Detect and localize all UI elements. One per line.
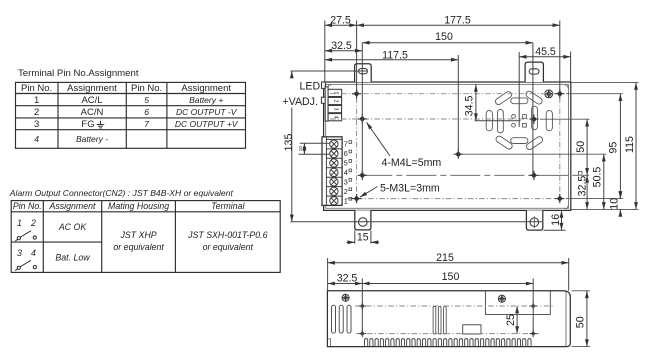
svg-text:15: 15	[357, 232, 369, 244]
svg-text:32.5: 32.5	[337, 273, 358, 285]
dimension 115	[635, 82, 637, 209]
side hole bottom-left	[359, 330, 367, 338]
svg-text:16: 16	[550, 214, 562, 226]
fan inner slot right	[532, 106, 538, 130]
fan outer slot top-left	[494, 90, 513, 105]
terminal labels 7..1	[344, 140, 352, 206]
svg-text:6: 6	[144, 107, 149, 117]
side vent slot 2	[339, 305, 343, 333]
corner tick bottom-right	[565, 205, 569, 208]
hole M4 H	[358, 171, 367, 180]
dimension 50 side	[572, 291, 591, 347]
middle vent slot 2	[438, 307, 441, 335]
connector CN2 plate	[325, 87, 328, 121]
dimension 177.5	[357, 24, 560, 26]
corner tick top-left	[327, 85, 331, 89]
right side extension lines	[462, 82, 639, 209]
bottom-left notch	[327, 339, 330, 347]
svg-text:50.5: 50.5	[592, 167, 604, 188]
svg-text:Pin No.: Pin No.	[13, 201, 42, 211]
dimension 50.5	[603, 154, 605, 209]
svg-text:3: 3	[344, 178, 348, 187]
fan outer slot bottom-left	[495, 135, 514, 150]
svg-text:Pin No.: Pin No.	[131, 83, 162, 94]
fan outer slot bottom-right	[525, 135, 544, 150]
slot in top-right tab	[529, 69, 539, 74]
svg-text:2: 2	[333, 100, 339, 103]
screw head main view	[545, 90, 553, 98]
case inner line	[326, 84, 569, 208]
small component box	[463, 325, 481, 334]
bottom comb vents	[365, 339, 532, 347]
centerline horizontal M4 top row	[330, 118, 530, 120]
svg-text:32.5: 32.5	[577, 176, 589, 197]
svg-text:4: 4	[34, 134, 39, 144]
svg-text:5: 5	[144, 95, 149, 105]
fan inner slot bottom	[511, 138, 528, 144]
switch symbol pins 3-4	[15, 260, 36, 270]
side centerline bottom row	[356, 333, 540, 335]
dimension 50 right	[586, 119, 588, 175]
dimension 27.5	[325, 24, 357, 26]
svg-text:Assignment: Assignment	[181, 83, 231, 94]
hole M3 A	[352, 89, 361, 98]
slot in top-left tab	[359, 69, 368, 74]
svg-text:150: 150	[435, 31, 453, 43]
side view case outline	[327, 291, 570, 347]
centerline horizontal M3 top row	[330, 93, 557, 95]
connector CN2 pin1 cell	[328, 89, 342, 96]
svg-text:215: 215	[436, 252, 454, 264]
terminal cells and screws	[326, 139, 342, 205]
fan outer slot top-right	[525, 90, 544, 105]
svg-text:25: 25	[505, 314, 517, 326]
side hole top-left	[359, 302, 367, 310]
svg-text:50: 50	[575, 141, 587, 153]
screw side right	[498, 295, 505, 302]
hole M3 B	[555, 89, 564, 98]
side hole top-right	[529, 302, 537, 310]
hole M4 C	[358, 114, 367, 123]
svg-text:+VADJ.: +VADJ.	[283, 96, 318, 108]
svg-text:AC OK: AC OK	[58, 222, 88, 232]
svg-text:Terminal: Terminal	[211, 201, 245, 211]
terminal block inner column	[325, 137, 327, 206]
svg-text:3: 3	[17, 248, 22, 258]
hole M3 E center	[454, 150, 463, 159]
slot circle bottom-right tab	[530, 218, 539, 227]
svg-text:JST SXH-001T-P0.6: JST SXH-001T-P0.6	[187, 230, 267, 240]
hole M3 G	[555, 194, 564, 203]
VADJ square potentiometer	[321, 97, 325, 103]
dimension 150 side	[362, 283, 533, 285]
svg-text:Pin No.: Pin No.	[21, 83, 52, 94]
side centerline top row	[355, 305, 553, 307]
dimension 10	[619, 193, 621, 215]
side vent slot 3	[347, 305, 351, 333]
svg-text:FG: FG	[81, 119, 94, 130]
svg-text:32.5: 32.5	[331, 40, 352, 52]
dimension 32.5 top	[325, 50, 363, 52]
svg-text:5: 5	[344, 159, 348, 168]
extension lines top dims	[325, 21, 571, 176]
table: terminal pin assignment grid	[16, 82, 246, 148]
svg-text:2: 2	[344, 187, 348, 196]
dimension 215	[328, 262, 569, 264]
terminal pitch dimension	[299, 143, 330, 154]
svg-text:Battery -: Battery -	[76, 134, 108, 144]
svg-text:AC/N: AC/N	[81, 107, 104, 118]
svg-text:Terminal Pin No.Assignment: Terminal Pin No.Assignment	[18, 68, 139, 79]
screw side left	[342, 294, 349, 301]
svg-text:10: 10	[608, 198, 620, 210]
svg-text:5-M3L=3mm: 5-M3L=3mm	[380, 183, 440, 195]
fan outer slot right	[546, 110, 552, 130]
switch symbol pins 1-2	[15, 231, 36, 241]
mounting tab top-left	[355, 64, 372, 82]
bottom slots line	[291, 221, 543, 223]
mounting tab top-right	[525, 62, 543, 82]
connector CN2 pin3 cell	[328, 106, 342, 113]
svg-text:or equivalent: or equivalent	[203, 242, 254, 252]
hole M4 I	[529, 171, 538, 180]
fan outer slot left	[486, 110, 492, 130]
svg-text:Battery +: Battery +	[189, 95, 223, 105]
svg-text:4: 4	[344, 168, 348, 177]
side hole bottom-right	[529, 330, 537, 338]
corner tick top-right	[565, 85, 569, 89]
M4 bottom row long-dash line	[362, 174, 589, 176]
slot circle bottom-left tab	[359, 218, 368, 227]
dimension 45.5	[519, 56, 570, 58]
svg-text:4: 4	[31, 248, 36, 258]
svg-text:177.5: 177.5	[444, 15, 471, 27]
svg-text:DC OUTPUT +V: DC OUTPUT +V	[175, 119, 239, 129]
svg-text:Alarm Output Connector(CN2) :: Alarm Output Connector(CN2) : JST B4B-XH…	[9, 188, 234, 198]
fan inner slot top	[511, 98, 528, 104]
leader 4-M4L	[367, 122, 391, 156]
dimension 32.5 right	[586, 175, 588, 209]
dimension 150 top	[362, 42, 533, 44]
case outline top view	[324, 82, 571, 210]
svg-text:Mating Housing: Mating Housing	[108, 201, 169, 211]
FG earth ground symbol	[97, 121, 104, 128]
svg-text:135: 135	[283, 134, 295, 152]
connector CN2 pin4 cell	[328, 114, 342, 121]
svg-text:3: 3	[34, 119, 39, 130]
svg-text:or equivalent: or equivalent	[113, 242, 164, 252]
svg-text:95: 95	[608, 142, 620, 154]
dimension 135 left	[291, 71, 368, 222]
dimension 117.5	[325, 59, 459, 61]
centerline vertical right M3 column	[559, 98, 561, 195]
svg-text:DC OUTPUT -V: DC OUTPUT -V	[176, 107, 238, 117]
recessed panel rectangle	[485, 291, 550, 315]
svg-text:117.5: 117.5	[382, 49, 408, 61]
leader 5-M3L	[360, 187, 378, 198]
dimension 34.5	[475, 84, 477, 120]
table texts column headers	[21, 83, 239, 144]
fan inner slot left	[498, 109, 504, 132]
svg-text:3: 3	[333, 108, 339, 111]
alarm table texts	[13, 201, 268, 262]
connector CN2 pin numbers	[333, 91, 339, 118]
LED square	[322, 82, 326, 88]
svg-text:1: 1	[34, 95, 39, 106]
svg-text:27.5: 27.5	[330, 15, 351, 27]
fan center squares	[523, 115, 527, 119]
svg-text:10: 10	[298, 146, 304, 152]
centerline vertical left M3 column	[356, 98, 358, 195]
svg-text:45.5: 45.5	[535, 46, 556, 58]
svg-text:Assignment: Assignment	[49, 201, 97, 211]
svg-text:115: 115	[624, 136, 636, 153]
svg-text:4-M4L=5mm: 4-M4L=5mm	[382, 157, 442, 169]
terminal block outline	[322, 137, 342, 206]
svg-text:4: 4	[333, 116, 339, 119]
dimension 95	[619, 94, 621, 199]
side view right cap inner line	[565, 291, 567, 347]
svg-text:50: 50	[574, 316, 586, 328]
dimension 32.5 side	[328, 283, 363, 285]
middle vent slot 3	[444, 307, 447, 335]
svg-text:7: 7	[344, 140, 348, 149]
svg-text:6: 6	[344, 149, 348, 158]
fan guard	[486, 90, 552, 151]
svg-text:2: 2	[34, 107, 39, 118]
svg-text:JST XHP: JST XHP	[120, 230, 157, 240]
svg-text:7: 7	[144, 119, 149, 129]
mounting tab bottom-left	[355, 210, 371, 230]
svg-text:150: 150	[442, 271, 460, 283]
hole M3 F	[352, 194, 361, 203]
table: alarm output connector grid	[11, 201, 280, 273]
side extension verticals	[328, 258, 569, 334]
centerline horizontal M3 bottom row	[346, 198, 557, 200]
svg-text:AC/L: AC/L	[81, 95, 102, 106]
svg-text:1: 1	[344, 196, 348, 205]
side vent slot 1	[332, 305, 336, 333]
mounting tab bottom-right	[526, 210, 542, 230]
dimension 15	[347, 230, 380, 243]
svg-text:34.5: 34.5	[464, 95, 476, 116]
svg-text:Assignment: Assignment	[67, 83, 117, 94]
svg-text:LED: LED	[300, 80, 321, 92]
middle vent slot 1	[433, 307, 436, 335]
svg-text:2: 2	[30, 218, 36, 228]
dimension 16	[544, 210, 566, 230]
svg-text:Bat. Low: Bat. Low	[55, 252, 90, 262]
connector CN2 pin2 cell	[328, 97, 342, 104]
svg-text:1: 1	[17, 218, 22, 228]
fan center circles	[512, 115, 516, 119]
dimension 25	[516, 306, 518, 334]
hole M4 D	[529, 115, 538, 124]
